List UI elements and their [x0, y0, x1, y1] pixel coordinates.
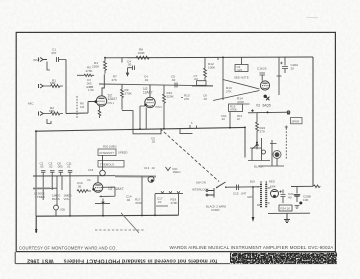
- cathode blob V5: [273, 195, 276, 198]
- label R14: [237, 97, 245, 104]
- label T1 leads: [250, 180, 275, 184]
- capacitor C22: [296, 187, 298, 202]
- label R19: [171, 198, 178, 205]
- label C7: [194, 74, 199, 81]
- wire dashed diagonal to switch: [160, 129, 219, 182]
- label CT1: [40, 162, 44, 169]
- label misc splitter: [203, 94, 207, 101]
- wire B+ top rail: [105, 56, 313, 59]
- wire pot drop 5: [51, 176, 53, 190]
- resistor R4 plate: [104, 58, 107, 74]
- plug circle: [262, 150, 266, 154]
- label CT4: [67, 162, 72, 169]
- wire drop x178: [178, 193, 180, 215]
- label C2 shield: [34, 192, 38, 199]
- label trem2: [173, 167, 181, 174]
- label intensity: [100, 151, 115, 155]
- pin label V2: [156, 105, 163, 109]
- capacitor C7 box: [197, 81, 207, 86]
- label C17: [157, 197, 163, 204]
- label osc: [144, 166, 155, 170]
- wire splitter: [192, 85, 213, 87]
- junction dot R23: [256, 142, 258, 144]
- resistor R9: [121, 84, 133, 129]
- label R23: [260, 126, 266, 133]
- speaker dot: [275, 152, 280, 157]
- label R24: [281, 207, 291, 211]
- label C13b: [88, 168, 94, 172]
- wire psu to right rail: [291, 185, 313, 187]
- label V3: [256, 104, 271, 108]
- wire drop x142: [141, 176, 143, 215]
- label R1: [50, 79, 56, 86]
- wire plate V2: [149, 85, 151, 98]
- resistor R1: [44, 85, 64, 88]
- dashed chassis line: [95, 229, 145, 231]
- power transformer T1: [261, 184, 266, 208]
- stub top rail x122: [121, 58, 123, 63]
- label CT2: [49, 162, 53, 169]
- label C9: [237, 65, 243, 72]
- tick bus a: [190, 125, 197, 128]
- label pot bass: [52, 194, 61, 201]
- label C12: [60, 208, 66, 212]
- arrow grid return: [99, 195, 102, 197]
- junction dot cathode row: [267, 111, 269, 113]
- shield dashed drop: [285, 126, 288, 161]
- label T2 box: [291, 118, 303, 124]
- label T1 left: [247, 195, 253, 199]
- capacitor C4: [128, 66, 135, 71]
- pot arrows P3: [161, 191, 180, 193]
- label cathode V1: [88, 85, 94, 92]
- border frame of schematic sheet: [16, 32, 335, 251]
- pin label V1: [108, 101, 115, 105]
- shielded lead: [115, 175, 156, 177]
- wire grid return: [102, 187, 116, 196]
- tick plus: [251, 109, 254, 112]
- wire left rail: [35, 131, 37, 216]
- wire jack1 ground hook: [47, 62, 50, 71]
- shielded grid lead dashed: [76, 96, 78, 118]
- T1 stubs: [257, 181, 271, 205]
- box R15: [229, 104, 243, 112]
- label R10: [167, 91, 175, 98]
- wire plate V1: [102, 74, 104, 96]
- cathode blob V3: [264, 95, 267, 98]
- label J1: [33, 58, 40, 62]
- wire tone bus: [33, 175, 115, 177]
- label V5: [270, 185, 276, 189]
- wire output cathode row: [248, 111, 290, 114]
- redaction noise bar: [230, 253, 337, 264]
- label C4: [127, 60, 132, 67]
- wire ac drop: [252, 187, 254, 217]
- label drop left: [221, 114, 227, 121]
- osc circle: [148, 176, 154, 182]
- wire left rail stub: [35, 216, 37, 229]
- label R2: [49, 106, 55, 113]
- label C15: [233, 192, 247, 196]
- capacitor CT2: [50, 171, 55, 176]
- label speed note: [118, 151, 127, 155]
- plus C20: [280, 62, 282, 64]
- cap symbol trem: [166, 167, 171, 171]
- junction dot ac: [252, 186, 254, 188]
- label box tremolo: [98, 161, 124, 168]
- resistor R23: [256, 113, 259, 150]
- wire pot drop 1: [42, 176, 44, 200]
- grid blob V2: [144, 104, 147, 107]
- title caption: [170, 245, 334, 250]
- capacitor C20 filter: [282, 57, 288, 73]
- wire drop x155: [154, 194, 156, 216]
- wire R15 drop: [229, 112, 231, 128]
- wire diagonal upper to grid: [223, 80, 260, 90]
- capacitor C5: [175, 83, 177, 88]
- wire pot drop 2: [56, 176, 58, 206]
- wire y188 stub shielded: [33, 187, 50, 189]
- wire screen vertical: [277, 57, 282, 95]
- switch contacts: [216, 186, 227, 188]
- wire V2 grid drop: [140, 106, 145, 129]
- label tremolo: [100, 162, 115, 166]
- note box C9: [235, 65, 248, 72]
- ground psu: [284, 213, 290, 222]
- label R8: [138, 48, 146, 55]
- label J3: [28, 102, 34, 106]
- ac plug: [206, 188, 214, 198]
- underline R14: [237, 103, 250, 105]
- pot arrow speaker: [253, 144, 259, 149]
- speaker: [273, 151, 281, 159]
- label C6: [151, 137, 156, 144]
- wire mid bus: [36, 127, 245, 131]
- wire sub-loop below bus: [133, 128, 161, 133]
- label R13: [226, 86, 232, 93]
- arrow C4: [126, 68, 128, 76]
- label C3: [86, 78, 92, 89]
- label C5: [171, 75, 176, 82]
- junction dots bus: [35, 57, 246, 233]
- x mark V3: [266, 97, 269, 100]
- wire right rail: [312, 57, 314, 186]
- label S1: [196, 181, 206, 185]
- jack J1: [39, 58, 48, 62]
- resistor R10: [163, 85, 166, 129]
- plate2 C22: [295, 195, 300, 197]
- label C1: [51, 48, 56, 56]
- label black lead: [254, 165, 264, 169]
- switch S1: [217, 182, 226, 187]
- label R7: [112, 75, 118, 82]
- label box intensity: [98, 149, 116, 156]
- wire jack3 hook: [47, 119, 51, 124]
- wire V2 cathode drop: [145, 108, 147, 130]
- wire y188 stub: [50, 187, 57, 189]
- resistor R12: [204, 58, 207, 81]
- resistor R8: [136, 56, 149, 59]
- label C22: [303, 195, 311, 202]
- resistor R3: [77, 74, 94, 76]
- arrow left rail stub: [35, 229, 38, 233]
- wire C9 stub: [241, 57, 243, 64]
- label drop right: [237, 114, 243, 121]
- resistor right rail end: [314, 185, 321, 188]
- label R9: [125, 88, 133, 95]
- wire bottom bus: [36, 215, 179, 216]
- tube V2: [145, 97, 155, 107]
- resistor R11: [77, 190, 91, 193]
- plate C22: [294, 194, 300, 196]
- label R4: [92, 61, 100, 68]
- label pot treble: [37, 192, 45, 199]
- wire pot drop 4: [69, 176, 71, 216]
- capacitor C1: [57, 57, 67, 62]
- jack J2: [39, 84, 44, 88]
- wire input vertical: [66, 60, 97, 114]
- label CT3: [57, 162, 63, 169]
- label C14: [126, 195, 132, 202]
- pot arrow: [102, 199, 104, 204]
- wire bus right drop: [244, 127, 246, 157]
- wire V4 stem: [97, 176, 99, 183]
- label R12: [208, 62, 216, 69]
- label V4 left: [87, 178, 91, 182]
- label R6: [80, 102, 85, 109]
- tube V1: [96, 96, 106, 106]
- tick rail a: [217, 57, 219, 60]
- label C20: [291, 63, 300, 70]
- label R17: [135, 198, 142, 205]
- capacitor CT1: [41, 171, 46, 176]
- label V1: [108, 94, 118, 102]
- pot P2: [100, 155, 106, 176]
- tick R13: [181, 97, 183, 99]
- label R13 left: [184, 94, 190, 101]
- capacitor C21: [281, 190, 286, 204]
- wire grid bus y84: [99, 84, 213, 86]
- capacitor CT4: [68, 171, 73, 176]
- wire speaker net a: [250, 138, 262, 161]
- label cord: [206, 205, 226, 213]
- pot V4 cathode: [95, 204, 110, 216]
- terminal output line: [287, 111, 290, 114]
- capacitor C12 disc: [54, 205, 59, 216]
- tube V5 rectifier: [271, 190, 279, 198]
- label bus mid: [191, 121, 193, 125]
- label C10: [77, 181, 83, 188]
- wire speaker net b: [248, 140, 284, 166]
- tube V3 output: [260, 81, 269, 90]
- label V2: [143, 87, 153, 94]
- wire ac line: [226, 186, 259, 188]
- label R15: [230, 105, 237, 112]
- label T2: [292, 119, 300, 123]
- inverted strip caption: [27, 258, 217, 264]
- underline C17: [156, 205, 168, 207]
- grid blob V1: [94, 100, 97, 103]
- osc dot: [151, 179, 154, 182]
- courtesy caption: [19, 246, 117, 251]
- plus C21: [279, 190, 281, 192]
- capacitor CT3: [59, 171, 64, 176]
- wire diagonal lower to grid: [213, 91, 260, 101]
- pot strip P3: [155, 193, 183, 195]
- label C21: [288, 192, 294, 199]
- wire diag chassis: [121, 213, 139, 233]
- arrow ac drop: [252, 217, 255, 222]
- junction dot R15: [229, 127, 231, 129]
- bottom strip right border: [335, 252, 337, 264]
- wire divider vertical: [222, 57, 224, 100]
- label interlock: [192, 188, 209, 192]
- label V4: [108, 187, 124, 191]
- bottom strip left box: [15, 252, 337, 264]
- capacitor C16: [260, 73, 266, 81]
- blob C22: [299, 202, 302, 205]
- tube V4: [93, 183, 103, 193]
- box R24: [279, 205, 292, 211]
- wire pot drop 3: [61, 176, 63, 190]
- wire step below bus: [180, 128, 193, 134]
- label C16: [257, 67, 267, 71]
- resistor R2: [44, 112, 64, 115]
- note text: [234, 76, 249, 80]
- smudge top: [306, 17, 318, 19]
- ground C22: [295, 206, 300, 209]
- jack J3: [39, 112, 44, 116]
- wire psu bottom: [268, 212, 310, 214]
- label R3: [86, 66, 93, 74]
- grid blob V4: [92, 188, 95, 191]
- label trem cap: [103, 145, 117, 149]
- cathode network V1: [98, 106, 101, 118]
- label C4B: [144, 75, 149, 82]
- capacitor C15: [237, 185, 239, 191]
- label pot vol: [64, 194, 73, 201]
